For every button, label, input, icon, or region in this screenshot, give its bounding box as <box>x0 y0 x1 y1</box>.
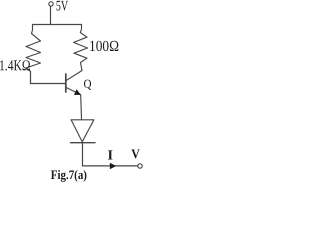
svg-text:Fig.7(a): Fig.7(a) <box>51 167 87 182</box>
svg-text:5V: 5V <box>56 0 69 14</box>
svg-text:1.4KΩ: 1.4KΩ <box>0 58 31 74</box>
svg-text:I: I <box>107 149 113 164</box>
svg-text:100Ω: 100Ω <box>89 38 119 55</box>
svg-text:Q: Q <box>83 77 91 91</box>
svg-text:V: V <box>131 146 140 161</box>
